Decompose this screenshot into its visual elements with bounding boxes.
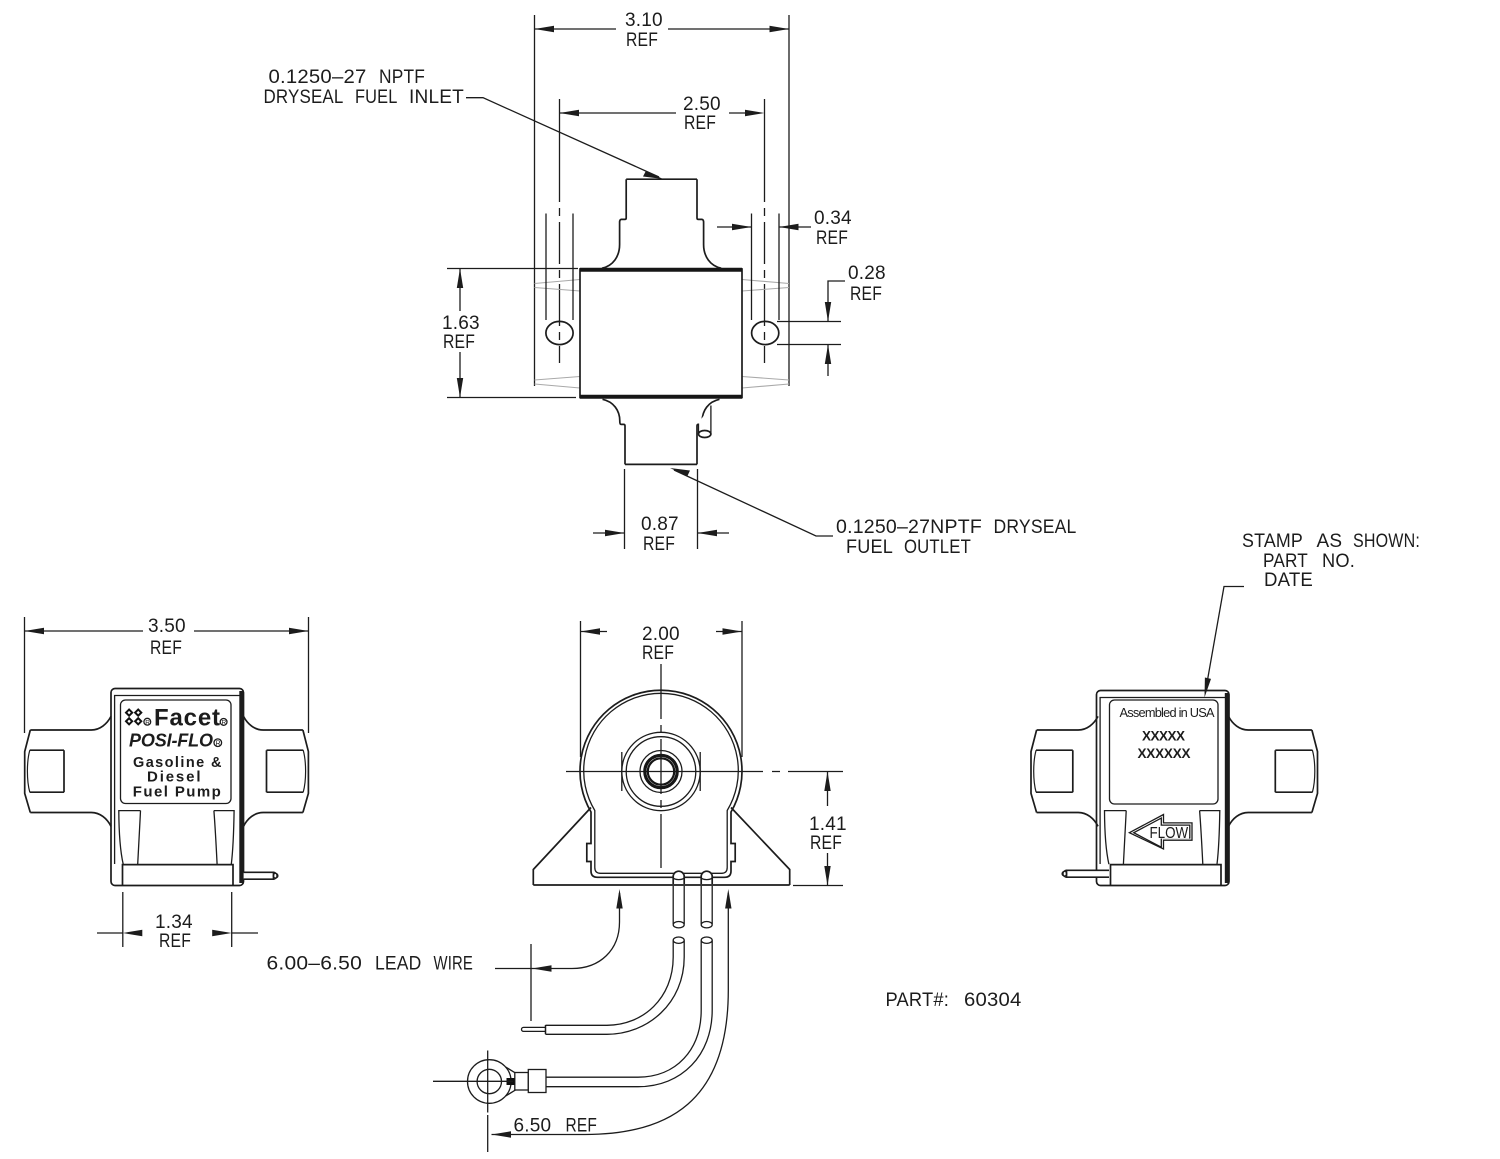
svg-text:REF: REF: [810, 833, 842, 854]
lead wire stub right (at base): [701, 871, 712, 884]
body bottom dark seam: [580, 395, 742, 399]
svg-text:POSI-FLO: POSI-FLO: [129, 730, 213, 750]
right wing: [1229, 716, 1318, 826]
svg-text:REF: REF: [626, 30, 658, 51]
arrowhead 2.50 right: [745, 110, 765, 116]
left wing: [1031, 716, 1098, 826]
slot edge lines left hole: [546, 214, 573, 321]
6.50 leader with up arrow at base: [492, 893, 729, 1135]
svg-text:0.34: 0.34: [814, 208, 852, 229]
6.50 dim extension line: [487, 1115, 489, 1152]
outlet vent tube: [699, 406, 711, 435]
terminal crosshair: [433, 1051, 513, 1113]
leader stamp: [1205, 587, 1244, 694]
wire segment1 left: [673, 886, 684, 928]
lead wire leader with up arrow at base: [495, 893, 620, 969]
svg-text:NPTF: NPTF: [379, 67, 425, 88]
svg-text:Fuel Pump: Fuel Pump: [133, 784, 221, 801]
svg-text:0.1250–27: 0.1250–27: [269, 67, 367, 88]
svg-text:REF: REF: [643, 534, 675, 555]
molded wedge left: [1105, 811, 1127, 865]
body right dark edge: [1225, 693, 1229, 883]
arrowhead 2.50 left: [560, 110, 580, 116]
svg-text:R: R: [222, 720, 227, 727]
coil boss circles: [622, 732, 700, 810]
FLOW arrow outline: [1129, 815, 1192, 850]
head outer profile: [580, 690, 742, 877]
dimension 0.87 REF extension lines: [625, 469, 698, 549]
svg-text:1.63: 1.63: [442, 313, 480, 334]
svg-text:DATE: DATE: [1264, 570, 1313, 591]
dimension 0.87 REF arrows: [593, 532, 729, 534]
mounting hole right: [752, 321, 779, 344]
dimension 2.50 REF extension line left (hole centerline): [559, 99, 561, 160]
svg-text:REF: REF: [566, 1116, 598, 1137]
svg-text:REF: REF: [150, 638, 182, 659]
dimension 3.10 REF extension line right: [788, 15, 790, 386]
registered mark after POSI-FLO: [214, 739, 222, 748]
dimension 3.50 REF extension lines: [25, 617, 309, 733]
Facet diamond logo: [125, 708, 143, 726]
svg-text:REF: REF: [642, 643, 674, 664]
molded wedge left: [119, 811, 141, 865]
svg-text:LEAD: LEAD: [375, 954, 422, 975]
wire left lower run: [546, 941, 685, 1035]
dimension 1.63 REF extension lines: [447, 269, 578, 398]
dimension 3.10 REF dimension line: [535, 28, 790, 30]
svg-text:INLET: INLET: [409, 87, 464, 108]
molded wedge right: [1200, 811, 1220, 865]
base strip: [123, 865, 234, 885]
body right dark edge: [239, 691, 243, 883]
phantom wing outline left (gray): [535, 280, 581, 389]
svg-text:STAMP: STAMP: [1242, 531, 1303, 552]
molded wedge right: [214, 811, 234, 865]
dimension 1.34 REF extension lines: [123, 892, 232, 947]
dimension 3.10 REF extension line left: [534, 15, 536, 386]
svg-text:FLOW: FLOW: [1150, 825, 1189, 842]
dimension 0.28 REF extension lines: [777, 322, 841, 345]
text FLOW: [1148, 826, 1189, 838]
wire right lower run: [546, 941, 712, 1087]
dimension 2.50 REF dimension line: [560, 112, 747, 114]
svg-text:FUEL: FUEL: [355, 87, 398, 108]
base strip: [1111, 865, 1222, 885]
dimension 1.41 REF lines: [793, 772, 843, 886]
label plate: [1110, 700, 1219, 804]
leader fuel outlet: [674, 470, 833, 536]
body inner highlight lines: [115, 696, 240, 865]
svg-text:SHOWN:: SHOWN:: [1353, 531, 1420, 552]
arrowhead 3.10 right: [770, 26, 790, 32]
svg-text:R: R: [216, 741, 221, 748]
svg-text:60304: 60304: [964, 990, 1022, 1011]
boss wrench flats: [622, 752, 700, 791]
stamp note: [1205, 531, 1421, 698]
lead wire stub left (at base): [673, 871, 684, 884]
svg-text:6.00–6.50: 6.00–6.50: [267, 954, 363, 975]
svg-text:1.34: 1.34: [155, 912, 193, 933]
svg-text:DRYSEAL: DRYSEAL: [264, 87, 344, 108]
vertical centerline: [660, 664, 662, 868]
slot edge lines right hole: [752, 214, 780, 321]
dimension 1.63 REF dimension line: [459, 269, 461, 398]
svg-text:1.41: 1.41: [809, 814, 847, 835]
svg-text:0.1250–27NPTF: 0.1250–27NPTF: [836, 517, 982, 538]
svg-text:0.87: 0.87: [641, 514, 679, 535]
ring terminal: [468, 1060, 547, 1104]
dimension 2.00 REF arrows: [581, 631, 743, 633]
svg-text:FUEL: FUEL: [846, 537, 893, 558]
right wing: [244, 716, 309, 826]
shaft circles: [640, 751, 682, 793]
svg-text:OUTLET: OUTLET: [904, 537, 971, 558]
svg-text:REF: REF: [816, 228, 848, 249]
svg-text:R: R: [145, 719, 150, 726]
left wing: [25, 716, 111, 826]
body outline: [111, 689, 244, 886]
svg-text:PART#:: PART#:: [886, 990, 950, 1011]
stripped wire tip: [522, 1025, 546, 1034]
dimension 1.34 REF arrows: [97, 932, 258, 934]
base bottom line: [533, 884, 789, 886]
body top dark seam: [580, 268, 742, 272]
wire segment1 right: [701, 886, 712, 928]
terminal tab right: [244, 872, 278, 879]
svg-text:PART: PART: [1263, 551, 1308, 572]
svg-text:XXXXX: XXXXX: [1142, 729, 1185, 744]
leader fuel inlet: [466, 98, 659, 177]
svg-text:DRYSEAL: DRYSEAL: [994, 517, 1077, 538]
phantom wing outline right (gray): [742, 280, 789, 389]
gusset left: [533, 808, 591, 886]
lead wire dim extension line: [530, 944, 532, 1021]
svg-text:REF: REF: [443, 332, 475, 353]
dimension 2.50 REF extension line right (hole centerline): [764, 99, 766, 160]
svg-text:3.10: 3.10: [625, 10, 663, 31]
gusset right: [731, 808, 790, 886]
registered mark after Facet: [220, 719, 227, 727]
registered mark after diamond: [144, 718, 151, 726]
dimension 3.50 REF dimension line: [25, 630, 309, 632]
crimp mark: [507, 1078, 515, 1085]
svg-text:0.28: 0.28: [848, 263, 886, 284]
arrowhead fuel inlet leader: [643, 171, 663, 179]
svg-text:WIRE: WIRE: [434, 954, 474, 975]
horizontal centerline: [566, 771, 843, 773]
body inner highlight lines: [1100, 698, 1225, 865]
svg-text:Assembled in USA: Assembled in USA: [1120, 705, 1215, 720]
svg-text:AS: AS: [1317, 531, 1343, 552]
head inner offset line: [584, 693, 739, 873]
mounting hole left: [546, 321, 573, 344]
inlet port: [602, 179, 721, 268]
outlet port: [603, 399, 720, 464]
svg-text:NO.: NO.: [1322, 551, 1355, 572]
svg-text:3.50: 3.50: [148, 616, 186, 637]
svg-text:REF: REF: [159, 931, 191, 952]
terminal tab left: [1062, 870, 1109, 877]
svg-text:2.00: 2.00: [642, 624, 680, 645]
arrowhead 3.10 left: [535, 26, 555, 32]
dimension 2.00 REF extension lines: [581, 621, 743, 757]
svg-text:REF: REF: [850, 284, 882, 305]
body outline: [1097, 691, 1230, 886]
dimension 0.28 REF leader/arrows: [828, 281, 845, 322]
dimension 0.34 REF arrows and tails: [717, 226, 811, 228]
svg-text:Facet: Facet: [154, 705, 220, 732]
label plate: [121, 700, 232, 804]
svg-text:REF: REF: [684, 113, 716, 134]
pump body rectangle: [580, 269, 742, 398]
svg-text:XXXXXX: XXXXXX: [1138, 746, 1191, 761]
svg-text:2.50: 2.50: [683, 94, 721, 115]
svg-text:6.50: 6.50: [514, 1116, 552, 1137]
